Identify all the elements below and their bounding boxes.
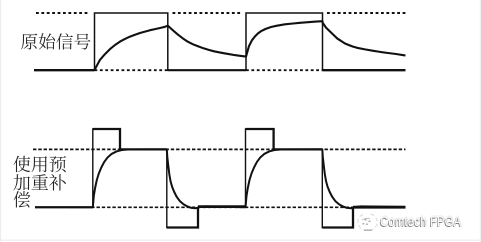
wire bottom pre-emphasis square wave <box>35 129 406 228</box>
label 原始信号 <box>21 33 90 49</box>
wire bottom compensated signal curve <box>35 149 406 208</box>
node top-low reference dotted line <box>95 69 168 71</box>
wire bottom overshoot box2 thick top <box>246 129 274 149</box>
logo Comtech swirl emblem <box>358 214 377 230</box>
node bottom-low reference dashed line <box>70 206 353 208</box>
label Comtech FPGA watermark <box>380 213 468 229</box>
node top-high reference dotted line (right) <box>327 12 406 14</box>
wire bottom low thick segments <box>35 206 93 208</box>
wire top ideal square wave <box>34 13 406 70</box>
node top-high reference dotted line (left) <box>36 12 89 14</box>
node top-high reference dotted line (middle) <box>173 12 242 14</box>
node bottom-high reference dashed line <box>33 148 406 150</box>
wire bottom undershoot box2 thick bottom <box>322 207 353 227</box>
wire top baseline thick segments <box>34 69 95 71</box>
frame left border <box>0 0 1 242</box>
wire bottom undershoot box1 thick bottom <box>167 207 198 227</box>
wire top distorted signal curve <box>95 21 406 70</box>
frame bottom border <box>0 240 481 241</box>
frame right border <box>480 0 481 242</box>
wire bottom high thick segments <box>120 148 167 150</box>
label 使用预加重补偿 <box>13 156 66 208</box>
wire bottom overshoot box1 thick top <box>93 129 120 149</box>
